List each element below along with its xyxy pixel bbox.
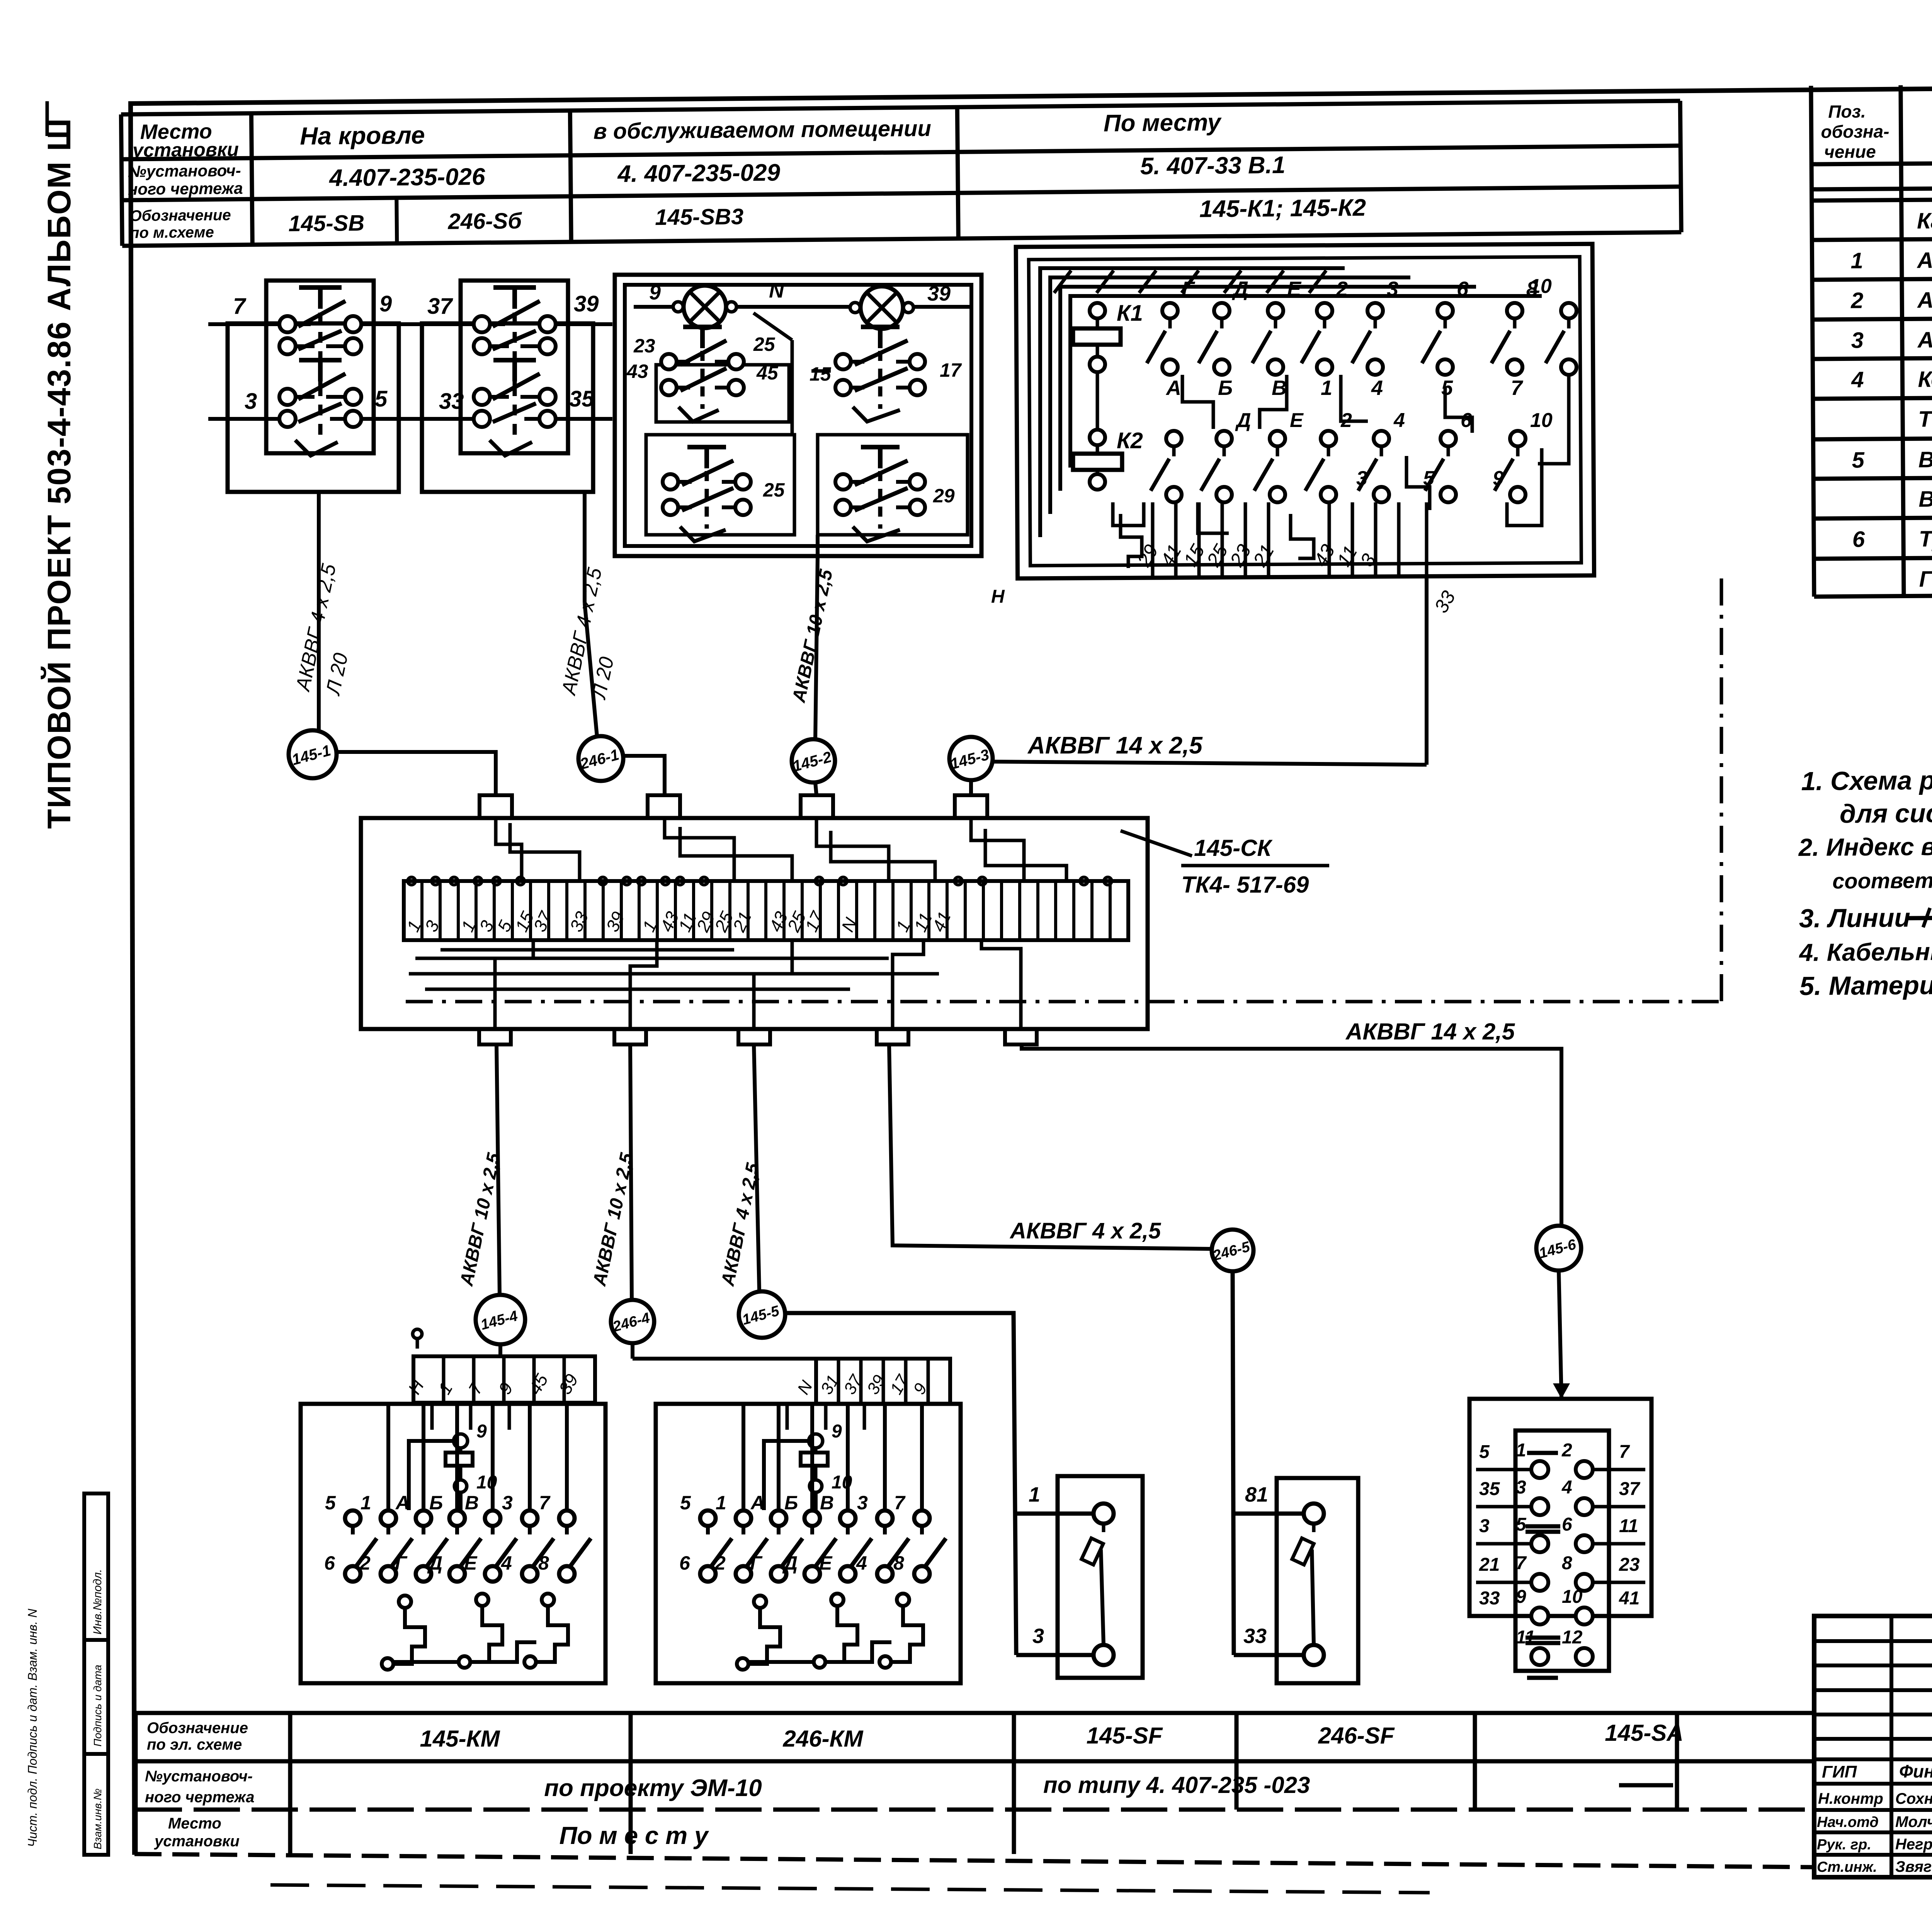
svg-text:Взам.инв.№: Взам.инв.№ (92, 1788, 104, 1849)
svg-text:33: 33 (439, 389, 464, 414)
node 246-5 (1211, 1230, 1253, 1271)
cable label AKVVG 4x2.5 (down3) (718, 1161, 764, 1288)
motor starter 246-KM (656, 1404, 961, 1683)
svg-text:7: 7 (1619, 1442, 1630, 1462)
wire strip to node 145-5 (754, 1044, 759, 1291)
cable label AKVVG 4x2.5 L20 (left) (291, 561, 352, 697)
svg-text:7: 7 (1516, 1553, 1527, 1573)
svg-text:По месту: По месту (1104, 109, 1222, 137)
relay K1 (1073, 301, 1143, 372)
svg-text:Подпись и дата: Подпись и дата (92, 1665, 104, 1747)
svg-text:7: 7 (894, 1492, 906, 1514)
svg-text:Н: Н (991, 587, 1005, 607)
svg-text:3: 3 (1851, 328, 1864, 353)
cable label AKVVG 14x2.5 (bottom run) (1345, 1019, 1515, 1044)
switch S4 in SV3 (29) (818, 435, 968, 541)
strip bottom tabs (479, 1029, 1037, 1044)
svg-text:5. 407-33 В.1: 5. 407-33 В.1 (1140, 152, 1285, 180)
wire strip tab5 to AKVVG14 run (1022, 1044, 1561, 1226)
stepped feeder wires above terminal row (496, 818, 1066, 881)
svg-text:5: 5 (1441, 376, 1453, 400)
header table Mesto ustanovki (121, 101, 1681, 246)
wire node246-1 to strip tab2 (623, 756, 665, 795)
lamp labels 9 N 39 (649, 279, 951, 340)
svg-text:35: 35 (569, 386, 594, 412)
junction box K1 K2 (145-K1 145-K2) (1016, 244, 1594, 578)
svg-text:обозна-: обозна- (1821, 121, 1889, 142)
svg-text:1: 1 (1516, 1440, 1526, 1461)
bus rack above 145-KM (404, 1329, 595, 1403)
switch S1 in SV3 (23/25/43/45) (626, 327, 789, 422)
notes text block (1797, 761, 1932, 1001)
svg-text:5: 5 (680, 1492, 691, 1514)
svg-text:Г: Г (395, 1552, 408, 1574)
switch 246-SF (1277, 1478, 1358, 1683)
wire node145-5 to 145-SF (785, 1313, 1094, 1655)
svg-text:Е: Е (1290, 409, 1304, 432)
svg-text:29: 29 (933, 485, 955, 507)
svg-text:4. Кабельный журнал см.: 4. Кабельный журнал см. А-23 (1798, 936, 1932, 966)
svg-text:41: 41 (1619, 1588, 1639, 1609)
svg-text:39: 39 (927, 282, 951, 305)
svg-text:В: В (465, 1492, 479, 1514)
svg-text:7: 7 (233, 294, 247, 319)
svg-text:8: 8 (893, 1552, 904, 1574)
terminal strip box 145-SK (361, 818, 1148, 1029)
svg-text:Д: Д (782, 1552, 798, 1574)
svg-text:Финкер: Финкер (1899, 1761, 1932, 1781)
svg-text:АКВВГ 14 х 2,5: АКВВГ 14 х 2,5 (1027, 732, 1203, 759)
svg-text:В: В (1272, 376, 1287, 400)
svg-text:Поз.: Поз. (1828, 101, 1866, 122)
svg-text:6: 6 (1562, 1514, 1572, 1535)
contact group upper row in K-box (1147, 277, 1538, 400)
svg-text:3: 3 (1516, 1477, 1526, 1498)
node 145-4 (476, 1295, 525, 1344)
svg-text:Б: Б (1218, 376, 1233, 400)
svg-text:246-Sб: 246-Sб (447, 208, 522, 234)
svg-text:2. Индекс в обозначении аппар: 2. Индекс в обозначении аппаратуры и мар… (1798, 828, 1932, 861)
svg-text:А: А (1165, 376, 1181, 400)
svg-text:8: 8 (538, 1552, 549, 1574)
svg-text:4: 4 (1851, 367, 1864, 392)
wire node145-3 to strip tab4 (969, 780, 973, 795)
switch SB2 246-SB (403, 281, 612, 492)
svg-text:А: А (750, 1492, 765, 1514)
svg-text:9: 9 (1493, 467, 1504, 490)
svg-text:Коробка соединительная КС-40: Коробка соединительная КС-40 (1918, 365, 1932, 392)
svg-text:246-КМ: 246-КМ (783, 1726, 864, 1752)
svg-text:9: 9 (649, 281, 661, 304)
cable label AKVVG 4x2.5 (to 246-5) (1009, 1218, 1161, 1243)
svg-text:А: А (395, 1492, 410, 1514)
svg-text:11: 11 (1516, 1627, 1535, 1648)
svg-text:3: 3 (1032, 1624, 1044, 1648)
node 246-1 (578, 736, 623, 781)
switch SB1 145-SB (208, 281, 418, 492)
cable label AKVVG 14x2.5 top (1027, 732, 1203, 759)
svg-text:7: 7 (1511, 376, 1524, 400)
svg-text:10: 10 (1530, 409, 1553, 432)
svg-text:АКВВГ 10 х 2,5: АКВВГ 10 х 2,5 (1917, 287, 1932, 313)
svg-text:ГИП: ГИП (1822, 1762, 1857, 1781)
svg-text:1: 1 (361, 1492, 371, 1514)
svg-text:145-SF: 145-SF (1087, 1723, 1163, 1749)
svg-text:2: 2 (1850, 288, 1864, 313)
switch S2 in SV3 (15/17) (810, 327, 962, 422)
svg-text:Ст.инж.: Ст.инж. (1817, 1859, 1877, 1875)
bottom designation table (136, 1713, 1814, 1854)
svg-text:4: 4 (856, 1552, 867, 1574)
wire node246-5 to 246-SF (1233, 1271, 1304, 1655)
internal wires of SV3 (657, 340, 831, 435)
svg-text:Обозначение: Обозначение (129, 207, 231, 225)
strip top tabs (480, 795, 987, 818)
svg-text:4.407-235-026: 4.407-235-026 (328, 163, 485, 192)
svg-text:33: 33 (1243, 1624, 1267, 1648)
svg-text:2: 2 (714, 1552, 726, 1574)
svg-text:Негреев: Негреев (1895, 1836, 1932, 1853)
svg-text:Труба водогазопроводная легкая: Труба водогазопроводная легкая Л20 (1919, 524, 1932, 552)
cable label AKVVG 4x2.5 L20 (second) (557, 565, 618, 701)
svg-text:Молчанов: Молчанов (1895, 1813, 1932, 1830)
svg-text:4: 4 (1393, 409, 1405, 432)
svg-text:Кабель ГОСТ 1508-78°С: Кабель ГОСТ 1508-78°С (1917, 207, 1932, 233)
svg-text:по типу 4. 407-235 -023: по типу 4. 407-235 -023 (1043, 1772, 1310, 1798)
svg-text:35: 35 (1479, 1479, 1500, 1499)
svg-text:Н.контр: Н.контр (1818, 1790, 1883, 1807)
svg-text:2: 2 (359, 1552, 371, 1574)
svg-text:1: 1 (1850, 248, 1863, 273)
svg-text:2: 2 (1561, 1440, 1572, 1461)
svg-text:23: 23 (1619, 1555, 1640, 1575)
svg-text:25: 25 (763, 479, 785, 501)
node 246-4 (611, 1300, 654, 1343)
svg-text:по проекту ЭМ-10: по проекту ЭМ-10 (544, 1775, 762, 1801)
wire node145-1 to strip tab1 (337, 752, 496, 795)
contact group lower row in K-box (1151, 409, 1553, 502)
svg-text:№установоч-: №установоч- (128, 161, 241, 180)
svg-text:ГОСТ 3262-75*: ГОСТ 3262-75* (1919, 566, 1932, 592)
svg-text:ВКУ2-22: ВКУ2-22 (1918, 486, 1932, 512)
lamp HL1 (673, 286, 736, 328)
label 145-SK TK4-517-69 (1121, 831, 1329, 898)
svg-text:Звягинцев: Звягинцев (1895, 1858, 1932, 1875)
svg-text:81: 81 (1245, 1483, 1268, 1506)
svg-text:по м.схеме: по м.схеме (130, 224, 214, 242)
svg-text:Д: Д (1235, 409, 1251, 432)
svg-text:в обслуживаемом помещении: в обслуживаемом помещении (593, 116, 931, 144)
svg-text:11: 11 (1619, 1516, 1638, 1536)
svg-text:Рук. гр.: Рук. гр. (1817, 1837, 1871, 1853)
svg-text:145-К1; 145-К2: 145-К1; 145-К2 (1199, 194, 1366, 223)
svg-text:39: 39 (574, 291, 599, 316)
svg-text:ТИПОВОЙ ПРОЕКТ 503-4-43.86 АЛЬ: ТИПОВОЙ ПРОЕКТ 503-4-43.86 АЛЬБОМ Ш (41, 118, 77, 829)
svg-text:АКВВГ 14 х 2,5: АКВВГ 14 х 2,5 (1917, 327, 1932, 353)
svg-text:145-КМ: 145-КМ (420, 1726, 501, 1752)
svg-text:К2: К2 (1117, 428, 1143, 453)
title block (1814, 1616, 1932, 1880)
svg-text:Нач.отд: Нач.отд (1817, 1814, 1879, 1830)
svg-text:3: 3 (1479, 1516, 1490, 1536)
svg-text:145-SВ: 145-SВ (288, 211, 364, 236)
svg-text:10: 10 (1562, 1587, 1583, 1607)
svg-text:3: 3 (857, 1492, 868, 1514)
svg-text:45: 45 (756, 362, 779, 384)
wire 33 from K-box to node 145-3 (991, 502, 1459, 765)
svg-text:3. Линии: 3. Линии (1799, 903, 1911, 933)
svg-text:N: N (769, 279, 784, 302)
svg-text:ного чертежа: ного чертежа (128, 179, 243, 198)
svg-text:Обозначение: Обозначение (147, 1720, 248, 1737)
parts list table (1811, 81, 1932, 597)
svg-text:установки: установки (154, 1833, 240, 1850)
stepped wires below terminal row (409, 940, 1021, 1029)
svg-text:25: 25 (753, 333, 776, 355)
switch S3 in SV3 (25) (646, 435, 794, 541)
svg-text:АКВВГ 4 х 2,5: АКВВГ 4 х 2,5 (1009, 1218, 1161, 1243)
svg-text:Г: Г (750, 1552, 763, 1574)
node 145-2 (791, 739, 835, 782)
svg-text:15: 15 (810, 363, 832, 385)
svg-text:АКВВГ 4 х 2,5: АКВВГ 4 х 2,5 (1916, 247, 1932, 273)
wire strip to node 145-4 (497, 1044, 500, 1294)
svg-text:9: 9 (832, 1421, 842, 1442)
wire node145-6 to 145-SA with arrow (1553, 1271, 1570, 1399)
wire strip to node 246-4 (630, 1044, 632, 1300)
svg-text:3: 3 (245, 389, 257, 414)
svg-text:5. Материалы учтены для дв: 5. Материалы учтены для двух систем. (1799, 968, 1932, 1001)
svg-text:21: 21 (1479, 1555, 1500, 1575)
svg-text:1: 1 (1321, 376, 1332, 400)
svg-text:9: 9 (379, 291, 392, 316)
svg-text:1: 1 (1029, 1483, 1040, 1506)
svg-text:1. Схема разработана для си: 1. Схема разработана для системы В3 и пр… (1801, 762, 1932, 796)
svg-text:5: 5 (1479, 1442, 1490, 1462)
wire from SV3 down to node 145-2 (815, 535, 818, 740)
svg-text:№установоч-: №установоч- (145, 1768, 253, 1785)
svg-text:Сохновская: Сохновская (1895, 1790, 1932, 1807)
left margin strip with rotated text (26, 1493, 108, 1855)
svg-text:ТУ36. 1764-79: ТУ36. 1764-79 (1918, 406, 1932, 432)
wire strip to node 246-5 (889, 1044, 1212, 1249)
motor starter 145-KM (301, 1404, 605, 1683)
terminal box 145-SA (1469, 1399, 1651, 1678)
svg-text:4. 407-235-029: 4. 407-235-029 (617, 159, 781, 187)
switch 145-SF (1058, 1476, 1143, 1678)
svg-text:ТК4- 517-69: ТК4- 517-69 (1181, 872, 1309, 898)
cable label AKVVG 10x2.5 (789, 567, 837, 704)
lamp HL2 (850, 286, 913, 329)
svg-text:5: 5 (1852, 447, 1864, 473)
svg-text:Место: Место (168, 1815, 221, 1832)
svg-text:Е: Е (819, 1552, 833, 1574)
svg-text:4: 4 (501, 1552, 512, 1574)
svg-text:К1: К1 (1117, 301, 1143, 326)
svg-text:1: 1 (716, 1492, 726, 1514)
svg-text:7: 7 (539, 1492, 551, 1514)
svg-text:Инв.№подл.: Инв.№подл. (91, 1569, 104, 1635)
svg-text:В: В (820, 1492, 834, 1514)
svg-text:5: 5 (325, 1492, 336, 1514)
svg-text:6: 6 (1852, 527, 1865, 552)
cable label AKVVG 10x2.5 (down2) (589, 1151, 638, 1288)
svg-text:Б: Б (429, 1492, 443, 1514)
svg-text:На кровле: На кровле (300, 121, 425, 150)
svg-text:Е: Е (464, 1552, 478, 1574)
node 145-6 (1536, 1226, 1581, 1271)
inner mesh wires of K-box (1113, 375, 1569, 568)
svg-text:Б: Б (784, 1492, 798, 1514)
svg-text:12: 12 (1562, 1627, 1583, 1648)
svg-text:5: 5 (1516, 1514, 1527, 1535)
cable label AKVVG 10x2.5 (down1) (456, 1151, 505, 1288)
svg-text:9: 9 (476, 1421, 487, 1442)
wire from 145-SB to node 145-1 (317, 492, 321, 730)
wire node145-2 to strip tab3 (815, 782, 816, 795)
svg-text:6: 6 (679, 1552, 690, 1574)
svg-text:17: 17 (940, 359, 962, 381)
contacts far right 8 10 (1492, 275, 1577, 375)
svg-text:ного чертежа: ного чертежа (145, 1789, 254, 1806)
svg-text:37: 37 (1619, 1479, 1641, 1499)
svg-text:установки: установки (131, 138, 239, 161)
terminal row of strip (403, 877, 1128, 940)
svg-text:Д: Д (427, 1552, 442, 1574)
wire from 246-SB to node 246-1 (585, 492, 597, 736)
bus rack above 246-KM (633, 1343, 950, 1404)
svg-text:3: 3 (502, 1492, 513, 1514)
lamp/switch box 145-SV3 (615, 275, 981, 556)
svg-text:Ввод кабельный ТУ36-1764-7: Ввод кабельный ТУ36-1764-79 (1918, 445, 1932, 472)
node 145-1 (289, 730, 337, 778)
svg-text:АКВВГ 14 х 2,5: АКВВГ 14 х 2,5 (1345, 1019, 1515, 1044)
bottom bus wires of K-box with core numbers (1133, 502, 1399, 578)
svg-text:По м е с т у: По м е с т у (559, 1822, 709, 1849)
vertical sheet title (41, 101, 77, 829)
svg-text:145-СК: 145-СК (1194, 835, 1273, 861)
svg-text:43: 43 (626, 361, 648, 382)
svg-text:Чист. подл. Подпись и дат. Вза: Чист. подл. Подпись и дат. Взам. инв. N (26, 1608, 39, 1847)
demolish dash-dot line in strip (406, 578, 1721, 1002)
svg-text:4: 4 (1371, 376, 1383, 400)
svg-text:чение: чение (1824, 141, 1876, 162)
nested feeder wires top-left of K-box (1040, 268, 1542, 537)
svg-text:6: 6 (324, 1552, 335, 1574)
node 145-5 (739, 1291, 785, 1338)
svg-text:145-SА: 145-SА (1605, 1720, 1683, 1746)
svg-text:23: 23 (633, 335, 655, 357)
svg-text:8: 8 (1562, 1553, 1572, 1573)
svg-text:3: 3 (1356, 467, 1367, 490)
svg-text:37: 37 (427, 294, 453, 319)
svg-text:9: 9 (1516, 1587, 1526, 1607)
svg-text:по эл. схеме: по эл. схеме (147, 1736, 242, 1753)
svg-text:для систем: В 10, В 12, В14.: для систем: В 10, В 12, В14. В20. (1840, 796, 1932, 828)
node 145-3 (949, 737, 993, 780)
svg-text:145-SВ3: 145-SВ3 (655, 204, 743, 230)
svg-text:5: 5 (375, 386, 388, 412)
svg-text:4: 4 (1561, 1477, 1572, 1498)
relay K2 (1073, 372, 1143, 490)
svg-text:246-SF: 246-SF (1318, 1723, 1395, 1749)
svg-text:33: 33 (1479, 1588, 1500, 1609)
